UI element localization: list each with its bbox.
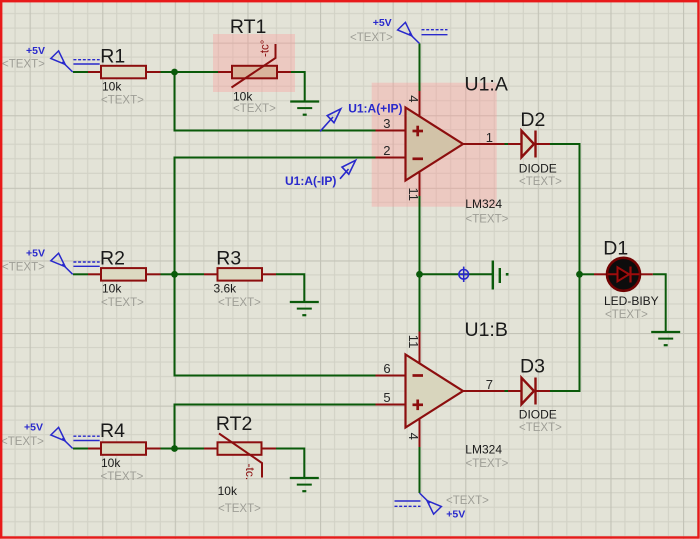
wire D1 to ground G4 bbox=[653, 274, 666, 332]
svg-text:U1:A(-IP): U1:A(-IP) bbox=[285, 174, 336, 188]
power terminal +5V T1 bbox=[51, 51, 100, 72]
power terminal +5V T2 bbox=[51, 253, 100, 274]
svg-text:<TEXT>: <TEXT> bbox=[218, 297, 261, 309]
svg-text:R1: R1 bbox=[100, 46, 125, 68]
battery cell B1 bbox=[493, 261, 509, 290]
svg-text:5: 5 bbox=[383, 390, 390, 405]
wire R2 to J2 bbox=[161, 273, 175, 275]
wire T3 to R4 bbox=[73, 448, 88, 450]
wire R1 to J1 bbox=[161, 71, 175, 73]
svg-text:<TEXT>: <TEXT> bbox=[446, 495, 489, 507]
svg-text:<TEXT>: <TEXT> bbox=[1, 436, 44, 448]
svg-text:<TEXT>: <TEXT> bbox=[233, 103, 276, 115]
svg-text:<TEXT>: <TEXT> bbox=[350, 32, 393, 44]
ground G1 bbox=[290, 102, 319, 115]
selection highlight RT1 bbox=[213, 34, 295, 92]
svg-text:R4: R4 bbox=[100, 420, 125, 442]
junction J1 bbox=[171, 69, 178, 76]
svg-text:4: 4 bbox=[406, 433, 421, 440]
svg-text:D1: D1 bbox=[603, 237, 628, 259]
thermistor RT2 bbox=[204, 434, 276, 481]
svg-text:R2: R2 bbox=[100, 248, 125, 270]
svg-text:D2: D2 bbox=[520, 109, 545, 131]
svg-text:R3: R3 bbox=[216, 247, 241, 269]
svg-text:10k: 10k bbox=[218, 484, 238, 498]
svg-text:LED-BIBY: LED-BIBY bbox=[604, 294, 659, 308]
svg-text:6: 6 bbox=[383, 361, 390, 376]
svg-text:10k: 10k bbox=[101, 456, 121, 470]
svg-text:RT2: RT2 bbox=[216, 413, 253, 435]
svg-text:1: 1 bbox=[486, 130, 493, 145]
op-amp U1:A bbox=[376, 91, 505, 196]
diode D3 bbox=[508, 378, 550, 405]
wire R4 to J3 bbox=[161, 448, 175, 450]
svg-text:+5V: +5V bbox=[446, 509, 465, 521]
svg-text:<TEXT>: <TEXT> bbox=[466, 458, 509, 470]
net label U1:A(-IP) bbox=[285, 160, 356, 188]
wire J2 to R3 bbox=[175, 273, 205, 275]
ground G4 bbox=[651, 332, 680, 345]
svg-text:3.6k: 3.6k bbox=[214, 282, 238, 296]
diode D2 bbox=[508, 131, 550, 158]
resistor R2 bbox=[88, 268, 161, 281]
svg-text:3: 3 bbox=[383, 116, 390, 131]
svg-text:<TEXT>: <TEXT> bbox=[466, 214, 509, 226]
power terminal +5V T4 top bbox=[398, 22, 448, 43]
wire T2 to R2 bbox=[73, 273, 88, 275]
ground G3 bbox=[290, 478, 319, 491]
svg-text:<TEXT>: <TEXT> bbox=[2, 59, 45, 71]
wire T1 to R1 bbox=[73, 71, 88, 73]
svg-text:7: 7 bbox=[486, 377, 493, 392]
junction J5 bbox=[416, 271, 423, 278]
svg-text:D3: D3 bbox=[520, 356, 545, 378]
svg-text:10k: 10k bbox=[102, 282, 122, 296]
svg-text:4: 4 bbox=[406, 95, 421, 102]
power terminal +5V T5 bottom bbox=[395, 493, 442, 514]
wire J3 to U1:B pin 5 bbox=[175, 405, 376, 449]
svg-text:11: 11 bbox=[406, 188, 421, 202]
ground G2 bbox=[290, 302, 319, 315]
svg-text:LM324: LM324 bbox=[465, 442, 502, 456]
wire J1 to RT1 bbox=[175, 71, 219, 73]
svg-text:+5V: +5V bbox=[373, 17, 392, 29]
wire R3 to ground G2 bbox=[276, 274, 304, 302]
svg-text:<TEXT>: <TEXT> bbox=[101, 297, 144, 309]
wire U1:B output to D3 bbox=[505, 390, 509, 392]
wire J4 to D1 bbox=[580, 273, 595, 275]
wire U1:A pin 11 to J5 to U1:B pin 11 bbox=[419, 196, 421, 332]
wire J3 to RT2 bbox=[175, 448, 205, 450]
net label U1:A(+IP) bbox=[320, 102, 403, 132]
wire D3 to J4 bbox=[550, 274, 580, 391]
svg-text:<TEXT>: <TEXT> bbox=[218, 503, 261, 515]
thermistor RT1 bbox=[218, 40, 291, 88]
svg-text:<TEXT>: <TEXT> bbox=[101, 471, 144, 483]
wire J1 to U1:A pin 3 bbox=[175, 72, 376, 131]
svg-text:2: 2 bbox=[383, 143, 390, 158]
junction J2 bbox=[171, 271, 178, 278]
resistor R4 bbox=[88, 442, 161, 455]
selection highlight U1:A bbox=[372, 83, 497, 207]
svg-text:10k: 10k bbox=[102, 80, 122, 94]
op-amp U1:B bbox=[376, 332, 505, 448]
svg-text:DIODE: DIODE bbox=[519, 407, 557, 421]
svg-text:<TEXT>: <TEXT> bbox=[101, 95, 144, 107]
svg-text:11: 11 bbox=[406, 335, 421, 349]
svg-text:RT1: RT1 bbox=[230, 16, 267, 38]
svg-text:DIODE: DIODE bbox=[519, 162, 557, 176]
svg-text:<TEXT>: <TEXT> bbox=[519, 422, 562, 434]
svg-text:+5V: +5V bbox=[26, 248, 45, 260]
wire J5 to battery bbox=[420, 273, 493, 275]
power terminal +5V T3 bbox=[51, 427, 100, 448]
wire T4 to U1:A pin 4 bbox=[419, 44, 421, 92]
wire RT2 to ground G3 bbox=[276, 449, 304, 479]
svg-text:<TEXT>: <TEXT> bbox=[605, 309, 648, 321]
svg-text:-tc.: -tc. bbox=[243, 464, 257, 481]
origin marker crosshair bbox=[458, 267, 469, 282]
wire U1:A pin 2 to J2 to U1:B pin 6 bbox=[175, 158, 376, 376]
junction J4 bbox=[576, 271, 583, 278]
wire U1:A output to D2 bbox=[505, 143, 509, 145]
svg-text:<TEXT>: <TEXT> bbox=[2, 262, 45, 274]
svg-text:U1:B: U1:B bbox=[465, 319, 508, 341]
wire D2 to J4 bbox=[550, 144, 580, 274]
svg-text:LM324: LM324 bbox=[465, 197, 502, 211]
svg-text:<TEXT>: <TEXT> bbox=[519, 176, 562, 188]
resistor R1 bbox=[88, 66, 161, 79]
svg-text:+5V: +5V bbox=[24, 422, 43, 434]
junction J3 bbox=[171, 445, 178, 452]
wire RT1 to ground G1 bbox=[291, 72, 305, 102]
svg-text:U1:A(+IP): U1:A(+IP) bbox=[348, 102, 402, 116]
svg-text:+5V: +5V bbox=[26, 45, 45, 57]
resistor R3 bbox=[204, 268, 276, 281]
wire U1:B pin 4 to T5 bbox=[419, 447, 421, 493]
LED D1 bbox=[594, 258, 653, 291]
svg-text:-tc°: -tc° bbox=[260, 40, 272, 57]
svg-text:10k: 10k bbox=[233, 89, 253, 103]
svg-text:U1:A: U1:A bbox=[465, 73, 508, 95]
